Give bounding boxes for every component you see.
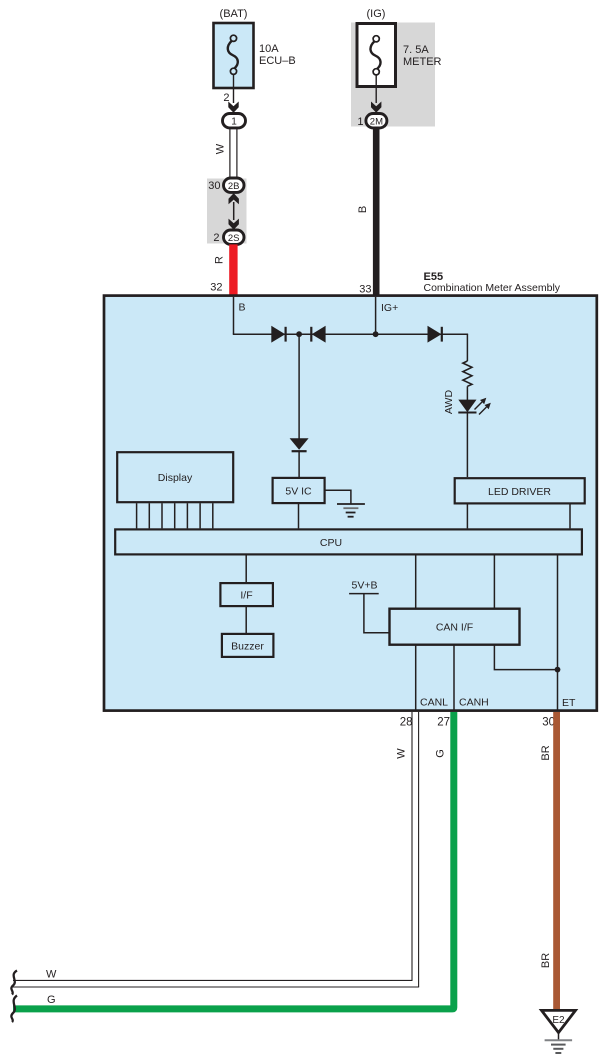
svg-text:W: W xyxy=(395,748,407,759)
continuation squiggle W xyxy=(11,971,17,995)
connector arrow down xyxy=(228,102,238,113)
horizontal bus wire xyxy=(233,333,468,335)
svg-text:1: 1 xyxy=(231,117,237,128)
wire junction down to diode D4 xyxy=(298,334,300,438)
wire CPU to I/F xyxy=(245,554,247,582)
wire pin32 down to bus xyxy=(233,297,235,334)
svg-text:32: 32 xyxy=(210,282,222,294)
diode D3 right-pointing xyxy=(428,326,442,343)
display comb wires xyxy=(136,503,138,528)
wire fuse to connector 2M xyxy=(375,75,377,103)
svg-text:Display: Display xyxy=(158,472,193,484)
gray block behind connectors 2B/2S xyxy=(207,179,247,244)
wire 5V IC to ground xyxy=(325,490,351,503)
wires CPU to CAN I/F xyxy=(415,554,417,608)
svg-text:10A: 10A xyxy=(259,43,279,55)
wire R red xyxy=(229,244,237,295)
ground symbol xyxy=(337,503,365,505)
wire I/F to Buzzer xyxy=(245,607,247,634)
svg-text:2S: 2S xyxy=(228,233,240,244)
svg-text:W: W xyxy=(46,969,57,981)
LED DRIVER block xyxy=(455,478,585,503)
fuse ECU-B element xyxy=(228,41,238,69)
svg-text:BR: BR xyxy=(540,953,552,968)
connector 2M xyxy=(366,114,387,128)
5V IC block xyxy=(273,478,325,503)
svg-text:E2: E2 xyxy=(552,1015,565,1026)
svg-text:BR: BR xyxy=(540,745,552,760)
svg-text:CAN I/F: CAN I/F xyxy=(436,622,473,634)
combination meter assembly box E55 xyxy=(104,296,597,711)
connector arrow down xyxy=(371,102,381,113)
svg-text:AWD: AWD xyxy=(443,390,455,415)
svg-text:G: G xyxy=(435,749,447,758)
svg-text:G: G xyxy=(47,994,56,1006)
svg-text:28: 28 xyxy=(400,717,413,729)
svg-text:I/F: I/F xyxy=(240,590,252,602)
wire D4 to 5V IC xyxy=(298,451,300,477)
svg-text:ET: ET xyxy=(562,697,576,709)
svg-text:Buzzer: Buzzer xyxy=(231,641,264,653)
Buzzer block xyxy=(222,634,274,657)
wire pin33 down to bus xyxy=(375,297,377,334)
wire fuse to connector 1 xyxy=(233,75,235,104)
svg-text:B: B xyxy=(357,206,369,213)
wire CANH (pin 27 line) xyxy=(453,645,455,710)
svg-text:5V IC: 5V IC xyxy=(285,486,312,498)
svg-text:33: 33 xyxy=(359,284,371,296)
svg-text:5V+B: 5V+B xyxy=(352,580,378,592)
resistor xyxy=(463,361,472,386)
LED AWD xyxy=(458,400,476,413)
wire CANL (pin 28 line) xyxy=(415,645,417,710)
wire G green (pin 27) xyxy=(13,712,457,1012)
svg-text:METER: METER xyxy=(403,56,442,68)
svg-text:(IG): (IG) xyxy=(367,8,386,20)
svg-text:CANL: CANL xyxy=(420,697,448,709)
wire bus corner down to resistor xyxy=(466,334,468,361)
gray block behind IG fuse xyxy=(351,23,435,127)
svg-text:30: 30 xyxy=(208,180,220,192)
fuse METER element xyxy=(370,41,380,69)
double arrow between 2B and 2S xyxy=(229,193,239,204)
Display block xyxy=(117,452,233,502)
junction node xyxy=(296,331,302,337)
I/F block xyxy=(220,583,273,606)
connector 2S xyxy=(224,230,245,244)
wire CAN I/F to ET line xyxy=(494,645,557,670)
wire LED to LED DRIVER xyxy=(466,413,468,478)
junction node at IG+ xyxy=(373,331,379,337)
5V+B bar xyxy=(349,593,379,595)
svg-text:LED DRIVER: LED DRIVER xyxy=(488,486,551,498)
svg-text:1: 1 xyxy=(357,116,363,128)
wires LED DRIVER to CPU xyxy=(466,504,468,529)
fuse METER box xyxy=(357,24,396,87)
svg-text:R: R xyxy=(214,256,226,264)
svg-text:2B: 2B xyxy=(228,181,240,192)
connector 1 xyxy=(223,114,246,128)
svg-text:(BAT): (BAT) xyxy=(220,8,248,20)
wire 5V+B to CAN I/F xyxy=(364,594,389,633)
wire W white double line xyxy=(229,128,231,179)
wire 5V IC to CPU xyxy=(298,504,300,529)
svg-text:CANH: CANH xyxy=(459,697,489,709)
CPU block xyxy=(115,529,582,554)
diode D4 down-pointing xyxy=(290,438,309,450)
svg-text:27: 27 xyxy=(437,717,450,729)
svg-text:Combination Meter Assembly: Combination Meter Assembly xyxy=(424,282,561,294)
ground E2 xyxy=(542,1010,576,1032)
svg-text:CPU: CPU xyxy=(320,537,342,549)
svg-text:7. 5A: 7. 5A xyxy=(403,44,429,56)
wire BR brown (pin 30) xyxy=(553,712,560,1010)
wire resistor to LED xyxy=(466,386,468,400)
continuation squiggle G xyxy=(11,996,17,1023)
svg-text:30: 30 xyxy=(542,717,555,729)
svg-text:2: 2 xyxy=(213,232,219,244)
wire W white double line (pin 28) xyxy=(411,712,413,980)
connector 2B xyxy=(224,178,245,192)
svg-text:IG+: IG+ xyxy=(381,302,398,314)
diode D2 left-pointing xyxy=(310,327,312,342)
junction node on ET line xyxy=(555,667,561,673)
fuse ECU-B box xyxy=(214,23,254,88)
svg-text:2M: 2M xyxy=(370,117,383,128)
svg-text:B: B xyxy=(239,302,246,314)
diode D1 right-pointing xyxy=(271,326,285,343)
svg-text:W: W xyxy=(215,143,227,154)
wire ET (pin 30 line) xyxy=(557,554,559,710)
svg-text:ECU–B: ECU–B xyxy=(259,55,296,67)
CAN I/F block xyxy=(390,609,520,645)
wire B black xyxy=(373,128,380,295)
